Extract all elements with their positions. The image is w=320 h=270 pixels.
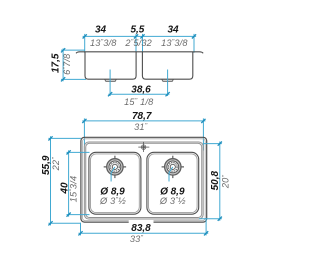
- svg-text:83,8: 83,8: [131, 223, 151, 234]
- svg-text:34: 34: [95, 24, 107, 35]
- svg-text:Ø 3"½: Ø 3"½: [159, 196, 186, 206]
- svg-text:78,7: 78,7: [132, 111, 152, 122]
- svg-text:34: 34: [167, 24, 179, 35]
- svg-text:5,5: 5,5: [130, 24, 144, 35]
- svg-text:22": 22": [51, 157, 61, 172]
- svg-text:13"3/8: 13"3/8: [161, 38, 188, 48]
- svg-text:2"5/32: 2"5/32: [124, 38, 152, 48]
- svg-text:15" 1/8: 15" 1/8: [124, 97, 154, 107]
- svg-text:17,5: 17,5: [51, 53, 62, 73]
- svg-text:Ø 3"½: Ø 3"½: [99, 196, 126, 206]
- svg-text:13"3/8: 13"3/8: [90, 38, 117, 48]
- svg-text:38,6: 38,6: [131, 85, 151, 96]
- svg-text:50,8: 50,8: [210, 171, 221, 191]
- svg-text:15"3/4: 15"3/4: [68, 176, 78, 203]
- svg-text:6"7/8: 6"7/8: [62, 53, 72, 75]
- svg-text:31": 31": [134, 122, 148, 132]
- svg-text:20": 20": [221, 175, 231, 190]
- svg-text:33": 33": [130, 234, 144, 244]
